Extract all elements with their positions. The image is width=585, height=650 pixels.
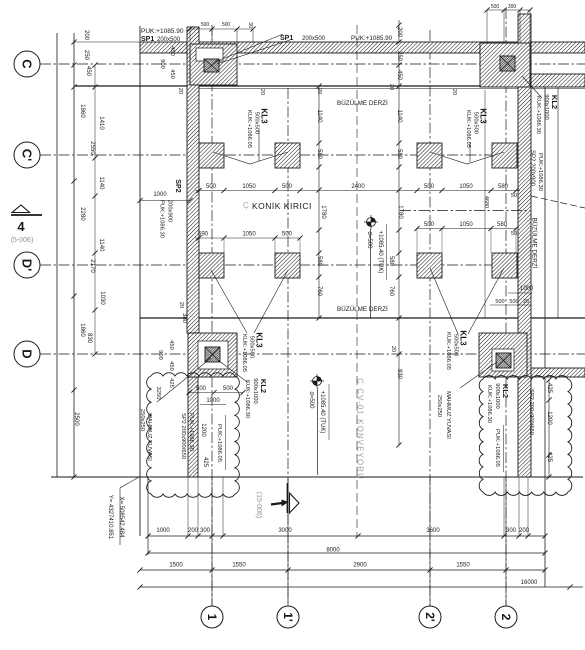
svg-text:500: 500	[201, 22, 210, 28]
svg-text:500x500: 500x500	[472, 112, 478, 134]
svg-text:KUK:+1086.30: KUK:+1086.30	[535, 96, 541, 134]
svg-text:200x900: 200x900	[166, 200, 172, 222]
svg-text:2900: 2900	[353, 563, 367, 569]
svg-text:450: 450	[169, 69, 175, 79]
svg-text:SP2 200x900/650: SP2 200x900/650	[528, 389, 534, 435]
svg-text:SP2: SP2	[174, 179, 181, 192]
svg-text:1860: 1860	[79, 104, 85, 118]
svg-text:3600: 3600	[426, 528, 440, 534]
svg-text:1': 1'	[281, 612, 295, 622]
svg-text:SP1: SP1	[141, 36, 154, 43]
svg-text:500: 500	[282, 232, 293, 238]
svg-text:50: 50	[511, 193, 517, 199]
svg-text:900x1000: 900x1000	[494, 383, 500, 408]
svg-text:KL3: KL3	[458, 330, 467, 346]
svg-text:200x500: 200x500	[302, 36, 326, 42]
svg-text:d=500: d=500	[366, 232, 372, 250]
svg-text:SP2 200x900: SP2 200x900	[529, 150, 535, 187]
svg-text:500x500: 500x500	[253, 112, 259, 134]
svg-text:1860: 1860	[79, 323, 85, 337]
svg-text:250x250: 250x250	[436, 395, 442, 417]
svg-text:300: 300	[508, 4, 517, 10]
svg-text:500x500: 500x500	[248, 336, 254, 358]
svg-text:380: 380	[181, 313, 187, 324]
svg-text:MAHMUZ YUVASI: MAHMUZ YUVASI	[445, 391, 451, 439]
svg-text:1140: 1140	[98, 239, 104, 253]
svg-text:425: 425	[202, 457, 208, 468]
svg-text:8000: 8000	[326, 548, 340, 554]
svg-text:BÜZÜLME DERZİ: BÜZÜLME DERZİ	[337, 98, 388, 107]
svg-text:200: 200	[396, 27, 402, 38]
svg-text:1030: 1030	[99, 291, 105, 305]
svg-text:500: 500	[206, 184, 217, 190]
svg-text:KUK:+1086.05: KUK:+1086.05	[246, 110, 252, 148]
svg-text:300: 300	[200, 528, 211, 534]
svg-text:500: 500	[509, 299, 518, 305]
svg-text:1000: 1000	[156, 528, 170, 534]
svg-text:580: 580	[396, 149, 402, 160]
svg-text:1500: 1500	[169, 563, 183, 569]
svg-text:580: 580	[388, 256, 394, 267]
svg-text:830: 830	[86, 333, 92, 344]
svg-text:D: D	[20, 349, 35, 358]
svg-text:580: 580	[498, 184, 509, 190]
svg-text:1050: 1050	[459, 222, 473, 228]
svg-text:PUK:+1086.30: PUK:+1086.30	[537, 153, 543, 191]
svg-text:830: 830	[396, 369, 402, 380]
svg-text:760: 760	[316, 286, 322, 297]
svg-text:C: C	[20, 59, 35, 69]
svg-text:20: 20	[178, 302, 184, 308]
svg-text:450: 450	[169, 46, 175, 56]
svg-text:500: 500	[491, 4, 500, 10]
svg-text:1140: 1140	[316, 110, 322, 124]
svg-text:580: 580	[316, 256, 322, 267]
svg-text:PUK:+1086.05: PUK:+1086.05	[494, 429, 500, 467]
svg-text:500x500: 500x500	[452, 334, 458, 356]
svg-text:1000: 1000	[206, 398, 220, 404]
svg-text:PUK:+1086.30: PUK:+1086.30	[158, 200, 164, 238]
svg-text:KUK:+1086.05: KUK:+1086.05	[241, 334, 247, 372]
svg-text:KUK:+1086.30: KUK:+1086.30	[244, 380, 250, 418]
svg-text:200x500: 200x500	[157, 37, 181, 43]
svg-text:200: 200	[83, 30, 89, 41]
svg-text:C': C'	[20, 149, 35, 161]
svg-text:500: 500	[424, 184, 435, 190]
svg-text:20: 20	[177, 88, 183, 94]
svg-text:1: 1	[205, 614, 219, 621]
svg-text:200: 200	[188, 528, 199, 534]
svg-text:20: 20	[390, 346, 396, 352]
svg-text:1050: 1050	[459, 184, 473, 190]
svg-text:250: 250	[396, 51, 402, 62]
svg-text:SP2 200x900/650: SP2 200x900/650	[180, 413, 186, 459]
svg-text:KL2: KL2	[501, 384, 510, 398]
svg-text:450: 450	[85, 66, 91, 77]
svg-text:KL2: KL2	[259, 379, 268, 393]
svg-text:500: 500	[282, 184, 293, 190]
svg-text:KL3: KL3	[254, 332, 263, 348]
svg-text:+1085.40 (TUK): +1085.40 (TUK)	[319, 391, 325, 434]
svg-text:KL3: KL3	[259, 108, 268, 124]
svg-text:500: 500	[222, 22, 231, 28]
svg-text:KL2: KL2	[550, 95, 559, 109]
svg-text:2500: 2500	[73, 412, 79, 426]
svg-text:900: 900	[157, 350, 163, 360]
svg-text:2': 2'	[423, 612, 437, 622]
svg-text:900x1000: 900x1000	[252, 378, 258, 403]
svg-text:450: 450	[168, 361, 174, 371]
svg-text:50: 50	[511, 231, 517, 237]
svg-text:20: 20	[259, 89, 265, 95]
svg-text:580: 580	[316, 149, 322, 160]
svg-text:590: 590	[198, 232, 209, 238]
svg-text:2550: 2550	[89, 141, 95, 155]
svg-text:KUK:+1086.30: KUK:+1086.30	[486, 385, 492, 423]
svg-text:1000: 1000	[520, 286, 534, 292]
svg-text:1780: 1780	[320, 205, 326, 219]
svg-text:BÜZÜLME DERZİ: BÜZÜLME DERZİ	[531, 218, 540, 269]
svg-text:580: 580	[497, 222, 508, 228]
svg-text:250: 250	[83, 50, 89, 61]
svg-text:1140: 1140	[98, 177, 104, 191]
svg-text:20: 20	[388, 84, 394, 90]
svg-text:1140: 1140	[396, 110, 402, 124]
svg-text:Ç CV-01 KONVEYORU: Ç CV-01 KONVEYORU	[356, 378, 365, 480]
svg-text:1780: 1780	[397, 205, 403, 219]
svg-text:KUK:+1086.05: KUK:+1086.05	[445, 332, 451, 370]
svg-text:d=500: d=500	[308, 392, 314, 410]
svg-text:760: 760	[388, 286, 394, 297]
svg-text:D': D'	[20, 259, 35, 271]
svg-text:500: 500	[223, 386, 234, 392]
svg-text:(5-006): (5-006)	[11, 237, 34, 244]
svg-text:PUK:+1086.05: PUK:+1086.05	[216, 424, 222, 462]
svg-text:2280: 2280	[79, 207, 85, 221]
svg-text:+1085.40 (TUK): +1085.40 (TUK)	[377, 231, 383, 274]
svg-text:Ç: Ç	[243, 201, 249, 210]
svg-text:(15-006): (15-006)	[255, 492, 262, 518]
svg-text:300: 300	[506, 528, 517, 534]
svg-text:4680: 4680	[483, 196, 489, 208]
svg-text:1000: 1000	[153, 192, 167, 198]
svg-text:2: 2	[499, 614, 513, 621]
svg-text:1410: 1410	[98, 116, 104, 130]
svg-text:1550: 1550	[232, 563, 246, 569]
svg-text:PUK:+1085.90: PUK:+1085.90	[141, 28, 184, 35]
svg-text:450: 450	[168, 340, 174, 350]
svg-text:3250: 3250	[155, 387, 161, 400]
svg-text:500: 500	[424, 222, 435, 228]
svg-text:16000: 16000	[521, 580, 538, 586]
svg-text:1050: 1050	[242, 184, 256, 190]
svg-text:3000: 3000	[278, 528, 292, 534]
svg-text:1550: 1550	[456, 563, 470, 569]
svg-text:30: 30	[247, 22, 253, 28]
svg-text:900x1000: 900x1000	[543, 94, 549, 119]
svg-text:KL3: KL3	[478, 108, 487, 124]
svg-text:2400: 2400	[351, 184, 365, 190]
svg-text:500: 500	[196, 386, 207, 392]
svg-text:20: 20	[523, 299, 529, 305]
svg-text:250x250: 250x250	[139, 409, 145, 431]
svg-text:SP1: SP1	[280, 35, 293, 42]
svg-text:PUK:+1086.30: PUK:+1086.30	[188, 413, 194, 451]
svg-text:BÜZÜLME DERZİ: BÜZÜLME DERZİ	[337, 304, 388, 313]
svg-text:X= 508542.484: X= 508542.484	[118, 497, 124, 539]
svg-text:500: 500	[495, 299, 504, 305]
svg-text:1200: 1200	[200, 423, 206, 437]
svg-text:2170: 2170	[89, 259, 95, 273]
svg-text:KONİK KIRICI: KONİK KIRICI	[252, 201, 312, 211]
svg-text:900: 900	[159, 59, 165, 69]
svg-text:450: 450	[396, 70, 402, 81]
svg-text:425: 425	[168, 378, 174, 388]
svg-text:Y= 4327410.851: Y= 4327410.851	[107, 495, 113, 540]
svg-text:20: 20	[316, 88, 322, 94]
svg-text:4: 4	[17, 219, 25, 234]
svg-text:20: 20	[451, 89, 457, 95]
svg-text:1050: 1050	[242, 232, 256, 238]
